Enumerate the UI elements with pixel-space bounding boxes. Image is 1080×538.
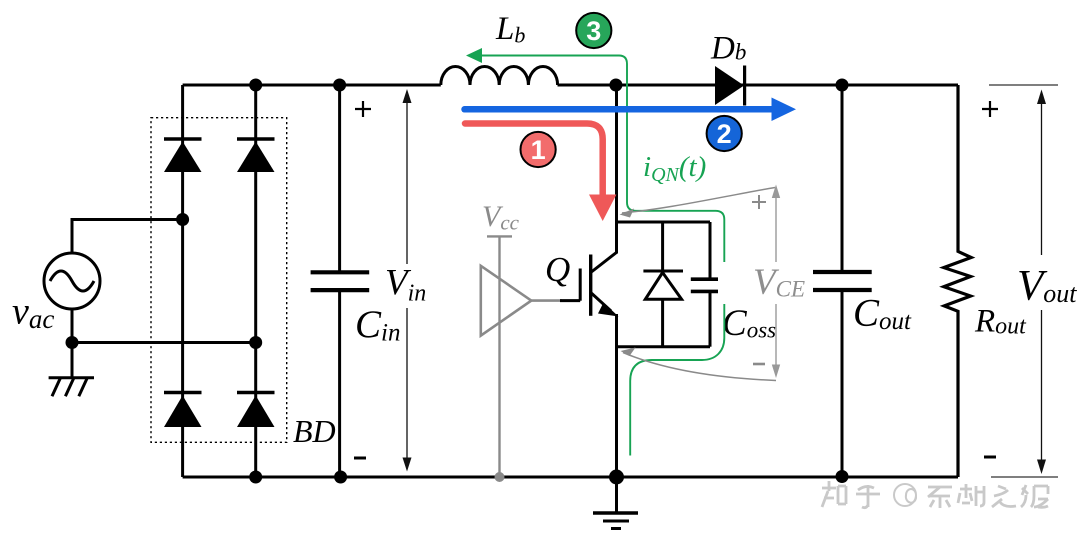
label Cin [355, 303, 400, 347]
plus sign Vin [355, 101, 371, 117]
gray node on bottom bus [495, 472, 505, 482]
gray rail from Vcc to bottom bus [498, 236, 500, 477]
gate driver supply Vcc label [482, 200, 520, 235]
chassis ground (ac side) [49, 343, 94, 397]
ac source vac [44, 253, 100, 309]
diode D1 (bridge top-left) [164, 139, 202, 172]
body diode of Q [643, 222, 683, 347]
svg-text:iQN(t): iQN(t) [643, 151, 706, 186]
diode D2 (bridge top-right) [237, 139, 275, 172]
wire left vertical (bridge left leg) [181, 85, 184, 477]
svg-text:BD: BD [293, 413, 336, 449]
plus sign Vout [982, 101, 998, 117]
label Coss [722, 303, 776, 344]
badge 2 (blue) [707, 116, 742, 151]
inductor Lb [441, 66, 558, 85]
wire top bus left segment [183, 84, 441, 87]
wire driver output to gate [531, 299, 580, 302]
capacitor Cin [311, 85, 370, 477]
leader curve VCE top [620, 188, 776, 218]
node Cin top [333, 79, 346, 92]
wire emitter vertical [615, 314, 618, 477]
minus sign Vin [354, 457, 366, 460]
svg-text:Lb: Lb [495, 11, 525, 48]
svg-text:1: 1 [531, 135, 546, 165]
label VCE [718, 262, 806, 304]
node vac-top junction [176, 213, 189, 226]
svg-text:Cin: Cin [355, 303, 400, 347]
label Cout [853, 292, 912, 336]
node bridge bottom bus [249, 471, 262, 484]
svg-text:Cout: Cout [853, 292, 912, 336]
label Db [710, 31, 746, 67]
measurement arrow Vin [403, 89, 412, 472]
wire collector vertical [615, 85, 618, 254]
wire bridge right leg [254, 85, 257, 477]
ground (power stage) [593, 477, 638, 529]
label Q [545, 250, 570, 289]
svg-text:Db: Db [710, 31, 746, 67]
node emitter bottom [609, 470, 624, 485]
gate driver buffer (triangle) [481, 266, 532, 336]
label vac [12, 291, 54, 335]
red current path 1 [465, 124, 616, 222]
minus sign VCE [753, 363, 765, 366]
svg-text:3: 3 [586, 16, 601, 46]
label BD [293, 413, 336, 449]
transistor Q (IGBT) [580, 252, 618, 317]
diode D4 (bridge bottom-right) [237, 393, 275, 428]
measurement line Vout top reference [989, 84, 1058, 86]
svg-text:Coss: Coss [722, 303, 776, 344]
node Cout bottom [836, 470, 849, 483]
measurement arrow VCE [772, 185, 780, 379]
node top bus / bridge right [249, 79, 262, 92]
svg-text:Vcc: Vcc [482, 200, 520, 235]
badge 1 (red) [521, 132, 556, 167]
wire vac bottom to bridge [72, 309, 256, 343]
label Vout [1012, 255, 1077, 310]
watermark zhihu [822, 481, 1048, 508]
node collector top [609, 79, 622, 92]
label iQN(t) [643, 151, 706, 186]
label Vin [385, 263, 432, 309]
wire top bus right segment [558, 84, 959, 87]
resistor Rout [944, 85, 971, 477]
measurement line Vout bottom reference [991, 476, 1058, 478]
diode D3 (bridge bottom-left) [164, 393, 202, 428]
svg-text:Q: Q [545, 250, 570, 289]
bridge rectifier dashed box BD [151, 118, 287, 443]
svg-text:2: 2 [717, 119, 732, 149]
capacitor Cout [813, 85, 872, 477]
node Cout top [836, 79, 849, 92]
wire vac top to bridge [72, 220, 183, 254]
measurement arrow Vout [1037, 90, 1046, 475]
label Rout [974, 304, 1027, 340]
capacitor Coss [691, 222, 731, 347]
blue current path 2 [465, 98, 797, 122]
diode Db [715, 66, 745, 106]
node vac-bottom right [249, 336, 262, 349]
leader curve VCE bottom [621, 348, 777, 381]
Vcc terminal bar [487, 235, 512, 237]
label Lb [495, 11, 525, 48]
node Cin bottom [334, 471, 347, 484]
minus sign Vout [984, 456, 996, 459]
green current path 3 [466, 48, 724, 456]
badge 3 (green) [576, 13, 611, 48]
wire snubber bottom rail [617, 345, 711, 348]
plus sign VCE [752, 195, 766, 209]
node vac-bottom left [66, 336, 79, 349]
wire snubber top rail [617, 221, 711, 224]
wire bottom bus [183, 476, 958, 479]
